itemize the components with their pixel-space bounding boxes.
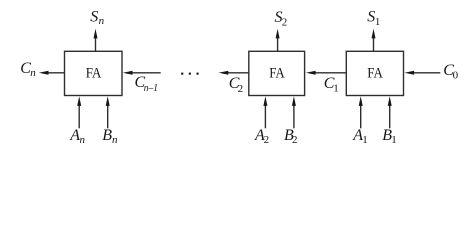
svg-text:FA: FA — [86, 65, 102, 81]
svg-text:n: n — [112, 134, 118, 146]
svg-text:2: 2 — [282, 17, 288, 29]
svg-text:0: 0 — [453, 69, 459, 81]
svg-text:1: 1 — [333, 83, 339, 95]
svg-text:FA: FA — [269, 65, 285, 81]
svg-text:1: 1 — [362, 134, 368, 146]
svg-text:2: 2 — [292, 134, 298, 146]
svg-text:FA: FA — [367, 65, 383, 81]
svg-text:n: n — [30, 67, 36, 79]
svg-text:n: n — [80, 134, 86, 146]
svg-text:n: n — [99, 15, 105, 27]
svg-text:2: 2 — [238, 83, 244, 95]
svg-text:1: 1 — [375, 16, 381, 28]
svg-text:1: 1 — [391, 134, 397, 146]
svg-text:S: S — [90, 8, 98, 25]
svg-text:n–1: n–1 — [144, 82, 158, 94]
svg-text:2: 2 — [264, 134, 270, 146]
svg-text:B: B — [102, 127, 112, 144]
